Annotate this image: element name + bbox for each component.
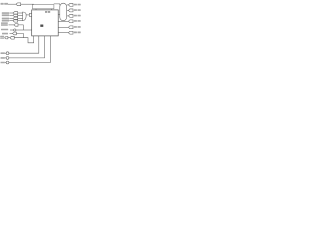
terminal GND2 (6, 57, 9, 60)
port CTL0 (13, 12, 18, 15)
label ANT3 (74, 15, 77, 17)
terminal GND1 (6, 52, 9, 55)
port MODE (14, 24, 18, 27)
wire (10, 14, 14, 16)
port ANT2 (68, 9, 73, 12)
wire (9, 36, 51, 63)
label GND2 (1, 57, 5, 59)
terminal TP1 (14, 29, 16, 31)
label GND1 (1, 52, 5, 54)
wire (18, 20, 23, 22)
wire (58, 20, 68, 22)
filter FB1 (29, 13, 31, 16)
label GND3 (1, 62, 5, 64)
wire (67, 9, 69, 11)
wire (18, 25, 23, 30)
label CTL2 (2, 18, 9, 20)
wire (58, 26, 68, 28)
label RX_EN line2 (0, 38, 4, 39)
wire (18, 17, 23, 19)
wire (58, 32, 68, 34)
wire PA_SB to port (8, 3, 16, 5)
port RFOUT (68, 26, 73, 29)
pin stub SH1 left (35, 9, 37, 10)
label CTL3 (2, 20, 9, 22)
label EN (2, 33, 8, 35)
wire (5, 62, 6, 64)
port CTL2 (13, 17, 18, 20)
wire (10, 29, 14, 31)
label CTL1 (2, 14, 9, 16)
wire (9, 36, 39, 53)
wire (67, 15, 69, 17)
wire (16, 33, 23, 37)
wire (26, 14, 29, 16)
shield box SH1 (32, 5, 54, 9)
port ANT4 (68, 20, 73, 23)
wire (9, 24, 15, 26)
wire (5, 52, 6, 54)
wire shield to connector (54, 4, 60, 5)
wire (14, 36, 34, 43)
label PA_SB (1, 3, 4, 5)
label MODE line1 (1, 22, 8, 24)
port EN (13, 32, 17, 35)
port RX_EN b (10, 36, 14, 39)
wire (10, 12, 14, 14)
port RFIN (68, 31, 73, 34)
wire (18, 14, 23, 16)
wire (8, 37, 10, 39)
label MODE line2 (1, 24, 8, 26)
label RX_EN line1 (0, 36, 4, 37)
label CTL0 (2, 12, 9, 14)
wire (10, 17, 14, 19)
port ANT3 (68, 14, 73, 17)
connector J1 (60, 3, 67, 21)
wire (10, 32, 13, 34)
wire (67, 4, 69, 6)
label ANT2 (74, 9, 77, 11)
wire port to shield box (21, 3, 34, 5)
label ANT4 (74, 20, 77, 22)
label RFIN (74, 32, 77, 34)
pin stub SH1 right (51, 9, 53, 10)
port CTL1 (13, 14, 18, 17)
decoder brace (23, 12, 27, 21)
port ANT1 (68, 3, 73, 6)
port RX_EN a (5, 37, 8, 39)
wire (18, 12, 23, 14)
label ANT1 (74, 4, 77, 6)
wire (10, 20, 14, 22)
terminal GND3 (6, 61, 9, 64)
label U1 pin names (45, 11, 47, 13)
IC U1 (32, 10, 59, 36)
label U1 part PIc (40, 25, 43, 27)
wire (16, 29, 32, 31)
wire (9, 36, 45, 58)
port PA_SB (16, 3, 21, 6)
wire (5, 57, 6, 59)
label RFOUT (74, 26, 77, 28)
wire (58, 14, 60, 16)
port CTL3 (13, 19, 18, 22)
label TP1 (1, 29, 8, 31)
